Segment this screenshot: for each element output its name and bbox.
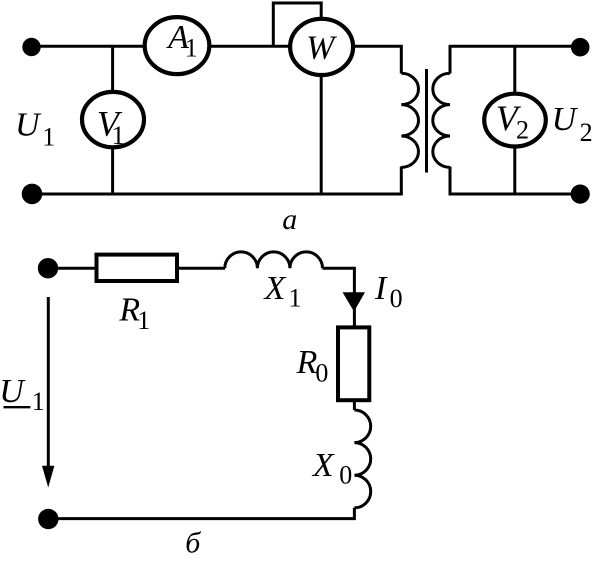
transformer secondary winding [433,73,450,167]
wire: R0 to inductor X0 [353,400,356,410]
wire: dot to resistor R1 [48,267,97,270]
wire: X1 to corner, down to R0 [323,268,355,327]
voltage arrow U1 (b) [42,297,54,488]
svg-text:1: 1 [112,121,125,150]
label a (caption) [282,203,297,236]
svg-text:1: 1 [185,34,198,63]
resistor R0 [338,327,369,400]
label X1 [263,270,302,312]
svg-text:2: 2 [516,115,529,144]
svg-text:1: 1 [32,387,45,416]
wire: junction down to voltmeter V2 [513,46,516,93]
svg-text:0: 0 [315,359,328,388]
voltmeter V1 [82,92,144,150]
voltmeter V2 [484,94,546,147]
upper rail secondary [449,45,579,48]
wire: top-left dot to ammeter A1 [31,45,146,48]
terminal dot bottom (b) [38,509,58,529]
svg-text:X: X [311,447,335,484]
lower rail (a) left [31,192,403,195]
wire: junction down to voltmeter V1 [111,46,114,91]
svg-text:б: б [185,527,201,560]
transformer core [425,69,428,173]
inductor X1 [225,252,323,268]
wire: W right to transformer primary [353,46,401,73]
label R0 [296,344,329,388]
svg-text:0: 0 [339,461,352,490]
terminal dot top (b) [38,258,58,278]
wire: secondary bottom stub [449,167,452,196]
wire: A1 to wattmeter W [210,45,290,48]
terminal dot bottom-left [22,184,43,205]
resistor R1 [97,255,178,281]
wire: X0 to bottom rail [47,508,354,519]
wattmeter W [290,19,353,75]
label U1 underlined (b) [0,373,45,416]
wire: primary bottom stub [400,167,403,196]
svg-text:1: 1 [137,306,150,335]
transformer primary winding [401,73,418,167]
wire: V1 bottom to lower rail [111,148,114,195]
label X0 [311,447,352,490]
ammeter A1 [145,17,210,74]
svg-text:1: 1 [289,283,302,312]
wire: V2 bottom to lower rail [513,147,516,195]
svg-text:U: U [15,107,42,144]
svg-text:а: а [282,203,297,236]
svg-text:U: U [0,373,26,410]
lower rail secondary [449,192,581,195]
svg-text:0: 0 [390,284,403,313]
terminal dot bottom-right [571,185,590,204]
label b (caption) [185,527,201,560]
wattmeter voltage-coil bracket [273,3,321,46]
svg-text:R: R [296,344,318,381]
label I0 [374,270,403,313]
svg-text:I: I [374,270,388,307]
label R1 [118,291,150,335]
label U2 (a) [552,101,593,147]
wire: W bottom to lower rail [320,75,323,195]
svg-text:X: X [263,270,287,307]
terminal dot top-left [22,38,40,56]
svg-text:U: U [552,101,579,138]
current arrow I0 [343,292,366,311]
terminal dot top-right [571,38,590,57]
wire: secondary top stub [449,46,452,73]
svg-text:1: 1 [42,123,55,152]
label U1 (a) [15,107,55,152]
wire: R1 to inductor X1 [178,267,225,270]
inductor X0 [354,410,370,508]
svg-text:W: W [306,30,337,67]
svg-text:2: 2 [580,118,593,147]
